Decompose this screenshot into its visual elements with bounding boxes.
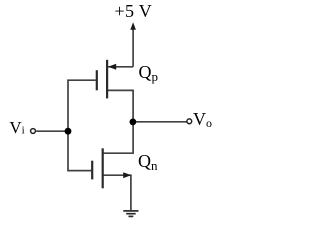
- svg-text:+5 V: +5 V: [115, 1, 153, 21]
